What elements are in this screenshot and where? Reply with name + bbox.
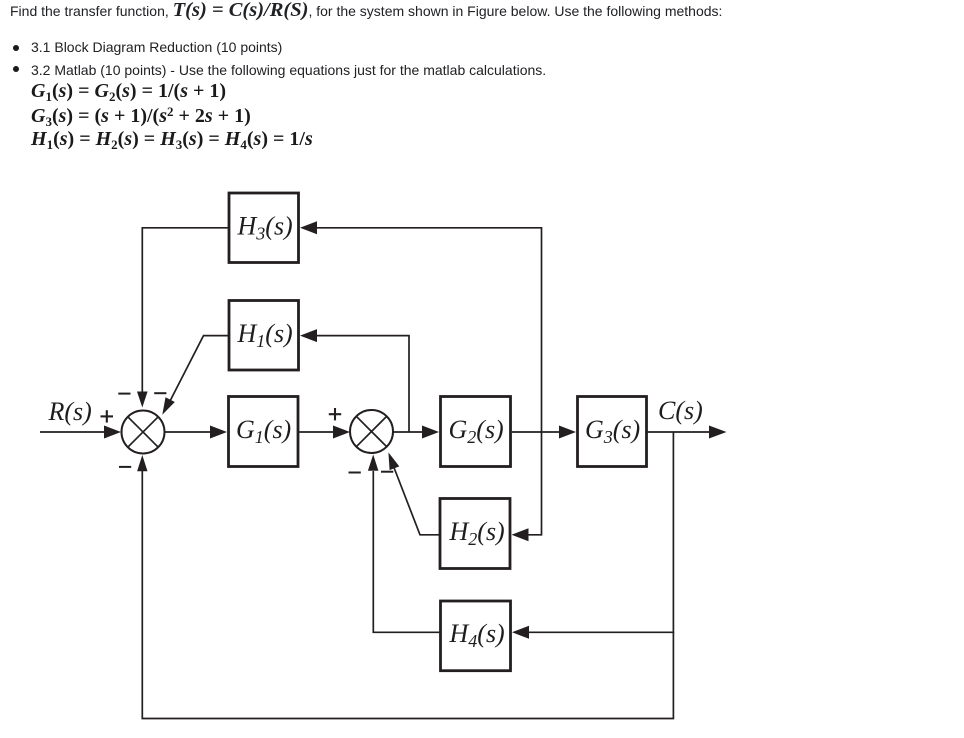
wire tap on G2-G3 line up to H3 input: [300, 221, 542, 432]
wire outer feedback loop from C(s) tap to SJ1 bottom: [137, 455, 673, 719]
bullet 3.1: [13, 45, 19, 51]
svg-text:H4(s): H4(s): [449, 619, 505, 651]
block G2: [441, 397, 511, 467]
bullet 3.2: [13, 66, 19, 72]
sign - below SJ2 left: [349, 472, 361, 474]
wire SJ1 to block G1: [165, 426, 228, 439]
problem statement line: [10, 4, 722, 18]
svg-text:H2(s): H2(s): [449, 517, 505, 549]
wire C(s) tap down to H4 input: [512, 432, 673, 639]
wire G2 to block G3: [512, 426, 576, 439]
wire H4 output to SJ2 bottom: [368, 455, 440, 633]
sign - below SJ2 right: [381, 471, 393, 473]
equation G1 G2: [31, 81, 226, 101]
svg-text:R(s): R(s): [48, 397, 92, 426]
sign - above SJ1 right of top arrow: [154, 392, 166, 394]
sign - above SJ1 left of top arrow: [118, 393, 130, 395]
svg-text:G2(s): G2(s): [449, 415, 504, 447]
wire G1 to summing junction SJ2: [299, 426, 350, 439]
svg-text:H3(s): H3(s): [237, 211, 293, 243]
equation H1..H4: [31, 129, 313, 149]
block G3: [578, 397, 647, 467]
wire tap on SJ2-G2 line up to H1 input: [300, 329, 409, 432]
svg-text:C(s): C(s): [658, 396, 703, 425]
block H4: [441, 601, 511, 671]
summing junction SJ2: [350, 410, 393, 453]
wire H2 output diagonal to SJ2: [388, 452, 440, 534]
summing junction SJ1: [122, 411, 165, 454]
block G1: [229, 397, 299, 467]
sign + at SJ2 left input: [329, 408, 341, 420]
wire H1 output diagonal to SJ1: [162, 336, 229, 415]
block H2: [440, 499, 510, 569]
svg-text:G3(s): G3(s): [585, 415, 640, 447]
wire SJ2 to block G2: [393, 426, 439, 439]
svg-text:G1(s): G1(s): [236, 415, 291, 447]
wire R(s) input to summing junction SJ1: [40, 426, 121, 439]
sign + at SJ1 left input: [101, 410, 114, 422]
block H1: [229, 301, 299, 371]
svg-text:H1(s): H1(s): [237, 319, 293, 351]
wire H3 output to SJ1 top: [137, 228, 229, 408]
wire G3 to output C(s): [647, 426, 727, 439]
wire tap on G2-G3 line down to H2 input: [512, 432, 542, 541]
block H3: [229, 193, 299, 263]
sign - below SJ1: [119, 466, 131, 468]
equation G3: [31, 106, 251, 126]
